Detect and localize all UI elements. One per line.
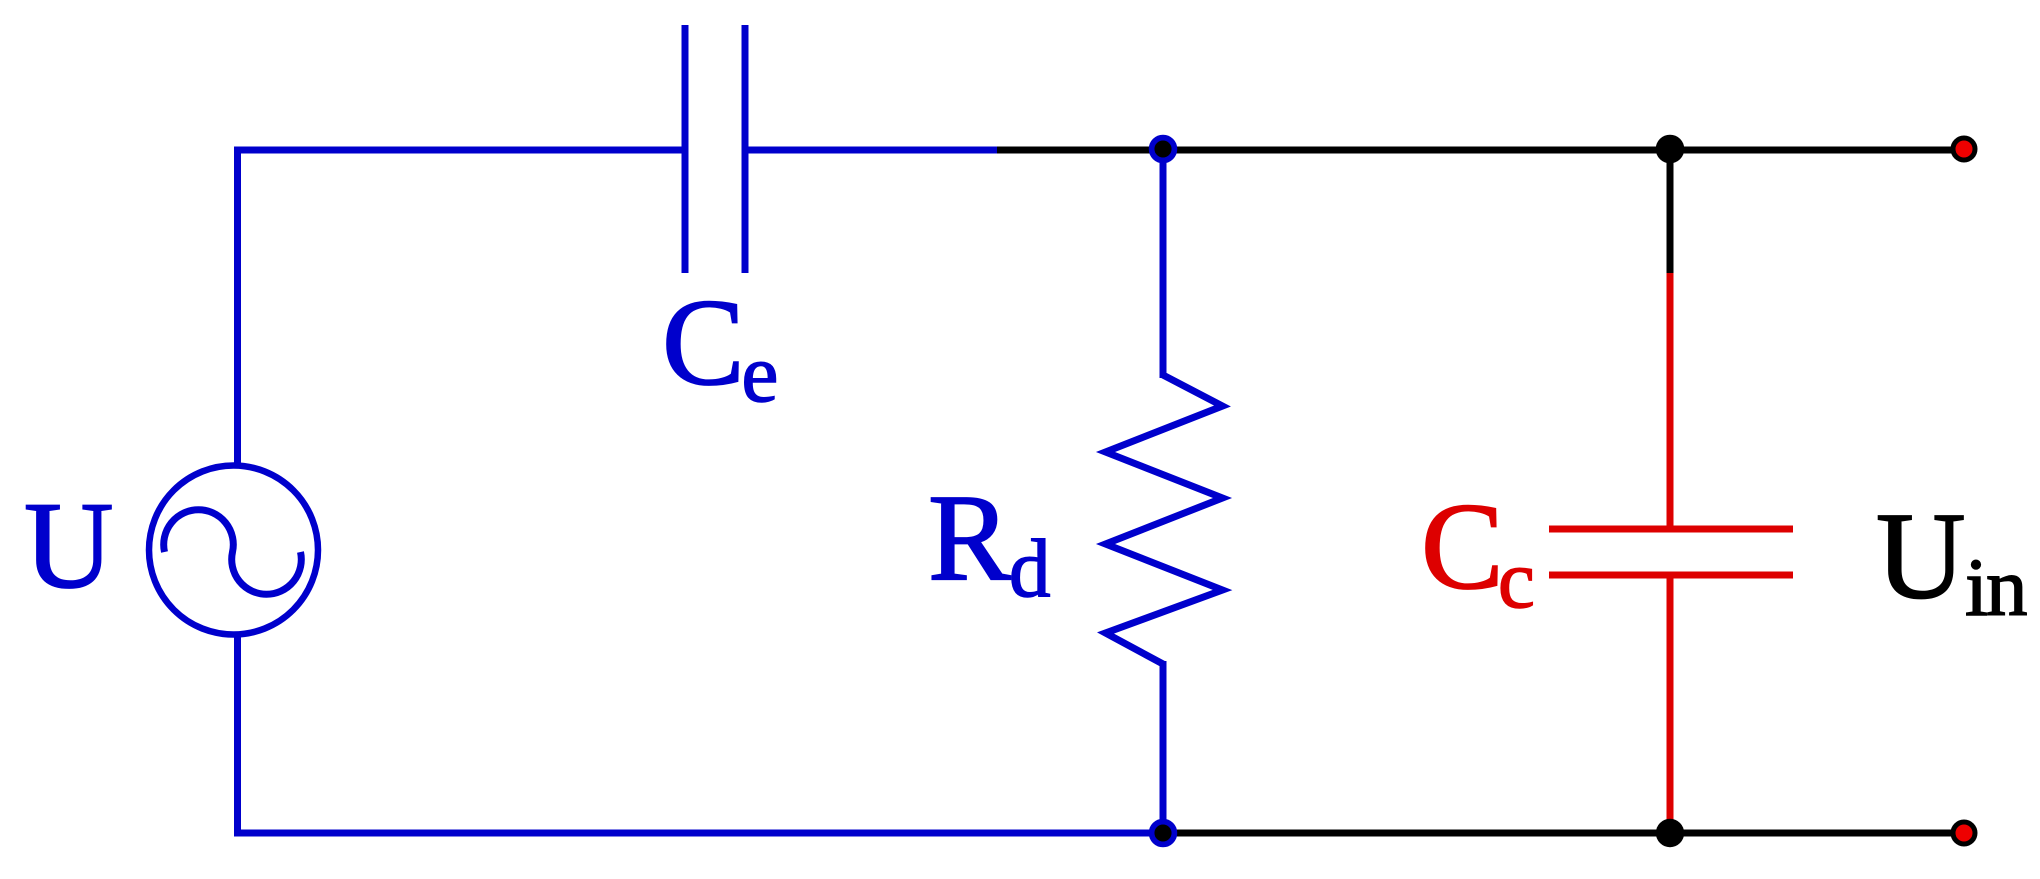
wire Rd lower vertical blue [1160,661,1167,833]
terminal top right: red dot with black ring [1953,138,1975,160]
svg-text:in: in [1965,541,2027,633]
svg-text:C: C [1421,478,1504,615]
terminal bottom right: red dot with black ring [1953,822,1975,844]
node top Cc junction: solid black dot [1656,135,1685,164]
capacitor C_c top plate [1549,526,1793,533]
wire blue from Ce right plate along top run [748,147,997,154]
svg-text:U: U [1876,488,1966,625]
wire bottom black run to right terminal [1163,830,1964,837]
svg-text:d: d [1009,522,1051,614]
node bottom Cc junction: solid black dot [1656,819,1684,847]
wire Cc red vertical below bottom plate [1667,578,1674,826]
AC source U circle [149,466,318,635]
svg-text:U: U [24,477,114,614]
resistor R_d zigzag [1106,375,1223,664]
node bottom Rd junction: black dot with blue ring [1152,822,1175,845]
capacitor C_c bottom plate [1549,572,1793,579]
wire top black run to right terminal [997,147,1964,154]
wire bottom-left blue: from source bottom down and bottom run to Rd node [238,634,1164,833]
node top Rd junction: black dot with blue ring [1152,138,1175,161]
wire Cc upper vertical black segment [1667,149,1674,273]
svg-text:R: R [928,469,1011,606]
capacitor C_e left plate [682,25,689,273]
svg-text:C: C [662,274,745,411]
svg-text:c: c [1498,533,1535,625]
wire Cc red vertical down to top plate [1667,273,1674,526]
AC source sine wave [164,510,302,594]
svg-text:e: e [742,327,779,419]
wire top-left blue: left vertical from source up and top run to Ce left plate [238,150,683,466]
capacitor C_e right plate [742,25,749,273]
wire Rd upper vertical blue [1160,150,1167,378]
